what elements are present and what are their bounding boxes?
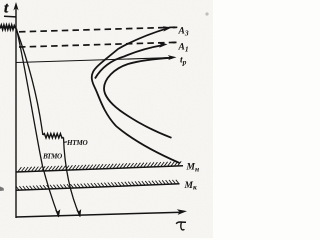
axis tau (horizontal) <box>16 212 182 217</box>
VTMO path arrowhead <box>55 209 60 217</box>
label tau <box>176 222 186 224</box>
axis t (vertical) <box>15 7 17 218</box>
svg-text:А1: А1 <box>178 43 189 54</box>
cooling path NTMO upper segment <box>16 30 42 135</box>
svg-text:Мк: Мк <box>184 181 197 192</box>
M_n line (martensite start) <box>16 166 183 172</box>
M_k line (martensite finish) <box>16 184 180 190</box>
NTMO path arrowhead <box>76 209 81 217</box>
leader dash of NTMO label <box>64 141 67 144</box>
underline of t <box>4 15 16 18</box>
arrowhead to A1 <box>159 42 168 48</box>
svg-text:ВТМО: ВТМО <box>42 153 62 161</box>
axis tau arrowhead <box>177 209 187 215</box>
inner C-curve: upper branch to t_p arrow, nose, lower branch <box>104 58 172 138</box>
scan artifact dot top right <box>205 12 208 15</box>
M_k hatching <box>16 180 179 191</box>
final dash before A3 label <box>173 26 178 28</box>
recrystallization curve rising to A1 arrow <box>95 45 164 79</box>
scan artifact left edge <box>0 187 4 192</box>
final dash before A1 label <box>173 41 177 43</box>
axis t arrowhead <box>13 2 18 11</box>
M_n hatching <box>18 161 181 171</box>
svg-text:tр: tр <box>180 56 187 67</box>
zigzag deformation NTMO <box>43 134 64 138</box>
svg-text:НТМО: НТМО <box>66 139 87 147</box>
svg-text:Мн: Мн <box>186 163 200 174</box>
arrowhead to A3 <box>163 26 172 31</box>
line t_p (recrystallization temperature) <box>16 58 173 63</box>
cooling path VTMO (left diagonal) <box>16 29 58 217</box>
cooling path NTMO lower segment <box>64 138 81 217</box>
outer C-curve: upper branch rising to A3 arrow, nose, lower branch down to Mn <box>92 28 180 163</box>
dashed line A3 <box>19 27 177 32</box>
svg-text:А3: А3 <box>178 27 189 38</box>
t_p arrowhead <box>168 55 177 60</box>
zigzag deformation VTMO (top-left) <box>0 25 16 30</box>
dashed line A1 <box>19 42 177 47</box>
